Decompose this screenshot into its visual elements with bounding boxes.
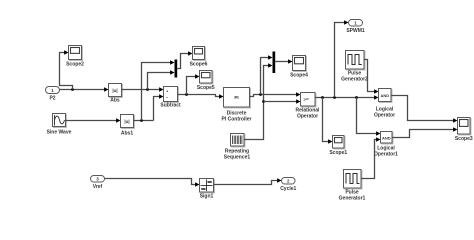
wire branch to Scope5 bbox=[187, 77, 196, 95]
svg-text:|u|: |u| bbox=[124, 119, 129, 124]
wire branch to Scope2 bbox=[60, 53, 73, 90]
wire Relational Operator to Logical Operator input 2 bbox=[315, 97, 375, 99]
wire Sign1 to Cycle1 bbox=[214, 181, 278, 185]
mux Mux bbox=[175, 60, 178, 78]
wire Abs1 to Subtract input 2 bbox=[154, 97, 160, 121]
wire PI controller to Relational Operator input 1 bbox=[250, 95, 297, 97]
wire branch to Mux input 1 bbox=[142, 63, 171, 121]
block Abs1 bbox=[121, 115, 135, 137]
scope Scope3 (dual input) bbox=[455, 118, 473, 143]
block Relational Operator bbox=[296, 93, 321, 120]
svg-text:Sign1: Sign1 bbox=[200, 194, 214, 200]
wire Subtract to PI controller bbox=[178, 95, 220, 97]
wire branch to Relational Operator input 2 bbox=[264, 101, 297, 103]
svg-text:Subtract: Subtract bbox=[160, 103, 181, 109]
svg-text:Scope3: Scope3 bbox=[455, 136, 473, 142]
scope Scope4 bbox=[290, 56, 308, 79]
svg-text:Abs1: Abs1 bbox=[121, 131, 133, 137]
wire Logical Operator to Scope3 input 1 bbox=[391, 96, 454, 121]
svg-text:AND: AND bbox=[380, 93, 389, 98]
wire Mux to Scope6 bbox=[177, 54, 188, 69]
wire Sine Wave to Abs1 bbox=[66, 120, 117, 122]
node junction to Scope1 bbox=[321, 96, 324, 99]
source Repeating Sequence1 bbox=[224, 134, 251, 161]
wire P2 to Abs bbox=[60, 89, 105, 91]
svg-text:PI Controller: PI Controller bbox=[221, 117, 251, 123]
svg-text:>=: >= bbox=[303, 97, 309, 102]
svg-text:Generator1: Generator1 bbox=[339, 196, 366, 202]
scope Scope5 bbox=[197, 71, 215, 92]
wire branch to Mux1 input 1 bbox=[261, 58, 269, 95]
wire Repeating Sequence1 to Mux1 input 2 bbox=[244, 66, 269, 140]
svg-text:Operator1: Operator1 bbox=[374, 152, 398, 158]
source Sine Wave bbox=[47, 114, 72, 136]
node junction on Abs output bbox=[146, 88, 149, 91]
block Abs bbox=[109, 84, 123, 104]
svg-text:SPWM1: SPWM1 bbox=[346, 28, 365, 34]
scope Scope2 bbox=[66, 46, 84, 68]
node junction on Subtract output bbox=[185, 93, 188, 96]
input port Vref (3) bbox=[91, 176, 105, 190]
source Pulse Generator2 bbox=[341, 51, 368, 83]
svg-text:Scope1: Scope1 bbox=[329, 150, 347, 156]
wire Abs1 output bbox=[134, 120, 154, 122]
scope Scope1 bbox=[329, 136, 347, 157]
svg-text:Operator: Operator bbox=[374, 113, 395, 119]
svg-text:|u|: |u| bbox=[112, 88, 117, 93]
svg-text:Cycle1: Cycle1 bbox=[280, 186, 296, 192]
wire Vref to Sign1 bbox=[105, 179, 196, 185]
node junction on Repeating Sequence wire bbox=[262, 100, 265, 103]
source Pulse Generator1 bbox=[339, 170, 366, 202]
gate Logical Operator1 (AND) bbox=[374, 132, 398, 158]
output port Cycle1 (2) bbox=[280, 178, 296, 192]
output port SPWM1 (1) bbox=[346, 20, 365, 34]
wire Mux1 to Scope4 bbox=[275, 61, 288, 63]
node junction on PI output bbox=[259, 93, 262, 96]
svg-text:Scope2: Scope2 bbox=[66, 62, 84, 68]
wire Abs to Subtract input 1 bbox=[122, 89, 160, 91]
gate Logical Operator (AND) bbox=[374, 89, 395, 119]
wire branch to Scope1 bbox=[323, 98, 329, 142]
svg-text:Operator: Operator bbox=[297, 114, 318, 120]
wire branch to Logical Operator1 input 1 bbox=[357, 98, 377, 134]
svg-text:Generator2: Generator2 bbox=[341, 77, 368, 83]
node junction to Logical Operator1 bbox=[355, 96, 358, 99]
wire branch to output port SPWM1 bbox=[335, 23, 345, 98]
node junction on Abs1 output bbox=[140, 119, 143, 122]
svg-text:AND: AND bbox=[382, 135, 391, 140]
svg-text:Sequence1: Sequence1 bbox=[224, 155, 251, 161]
wire Pulse Generator2 to Logical Operator input 1 bbox=[364, 60, 375, 92]
svg-text:Vref: Vref bbox=[93, 184, 103, 190]
scope Scope6 bbox=[190, 47, 208, 68]
mux Mux1 bbox=[273, 52, 276, 74]
block Subtract bbox=[160, 87, 181, 109]
input port P2 (1) bbox=[46, 87, 60, 102]
node junction on P2 wire bbox=[71, 88, 74, 91]
svg-text:Sine Wave: Sine Wave bbox=[47, 130, 72, 136]
node junction to SPWM1 bbox=[333, 96, 336, 99]
block Sign1 bbox=[200, 179, 215, 200]
svg-text:Abs: Abs bbox=[110, 98, 120, 104]
wire Pulse Generator1 to Logical Operator1 input 2 bbox=[361, 140, 377, 179]
controller U1 Discrete PI Controller bbox=[221, 88, 251, 123]
svg-text:P2: P2 bbox=[49, 95, 55, 101]
svg-text:Scope4: Scope4 bbox=[290, 73, 308, 79]
wire branch to Mux input 2 bbox=[148, 73, 171, 90]
svg-text:Scope6: Scope6 bbox=[190, 62, 208, 68]
svg-text:PI: PI bbox=[234, 95, 238, 100]
svg-text:Scope5: Scope5 bbox=[197, 85, 215, 91]
wire Logical Operator1 to Scope3 input 2 bbox=[392, 130, 454, 138]
